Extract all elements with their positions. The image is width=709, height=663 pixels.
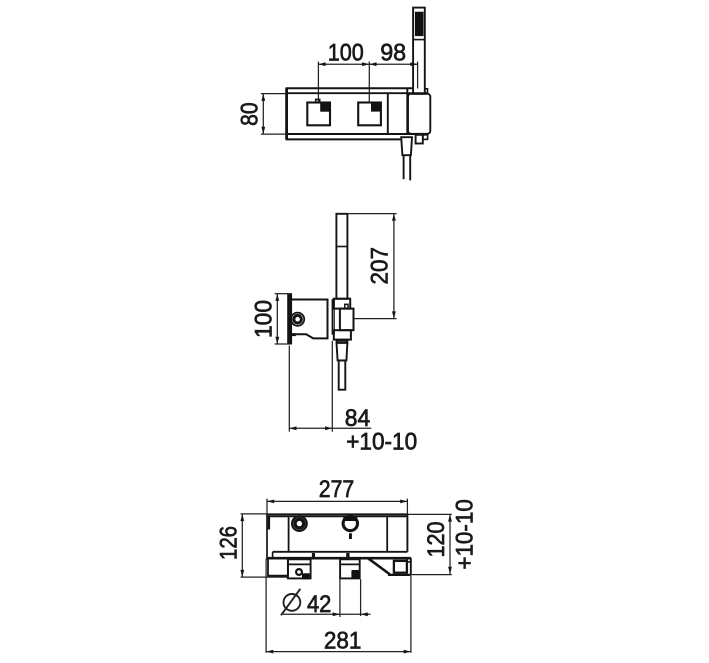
svg-text:281: 281	[324, 627, 362, 654]
svg-text:100: 100	[328, 40, 364, 67]
svg-text:+10-10: +10-10	[346, 429, 417, 456]
svg-text:98: 98	[380, 40, 406, 67]
svg-text:+10-10: +10-10	[451, 499, 478, 570]
svg-text:277: 277	[319, 476, 355, 503]
svg-text:80: 80	[237, 102, 264, 126]
svg-text:120: 120	[423, 522, 450, 558]
svg-text:100: 100	[250, 300, 277, 338]
svg-text:207: 207	[367, 247, 394, 285]
svg-text:126: 126	[215, 526, 242, 560]
svg-text:42: 42	[307, 591, 332, 618]
